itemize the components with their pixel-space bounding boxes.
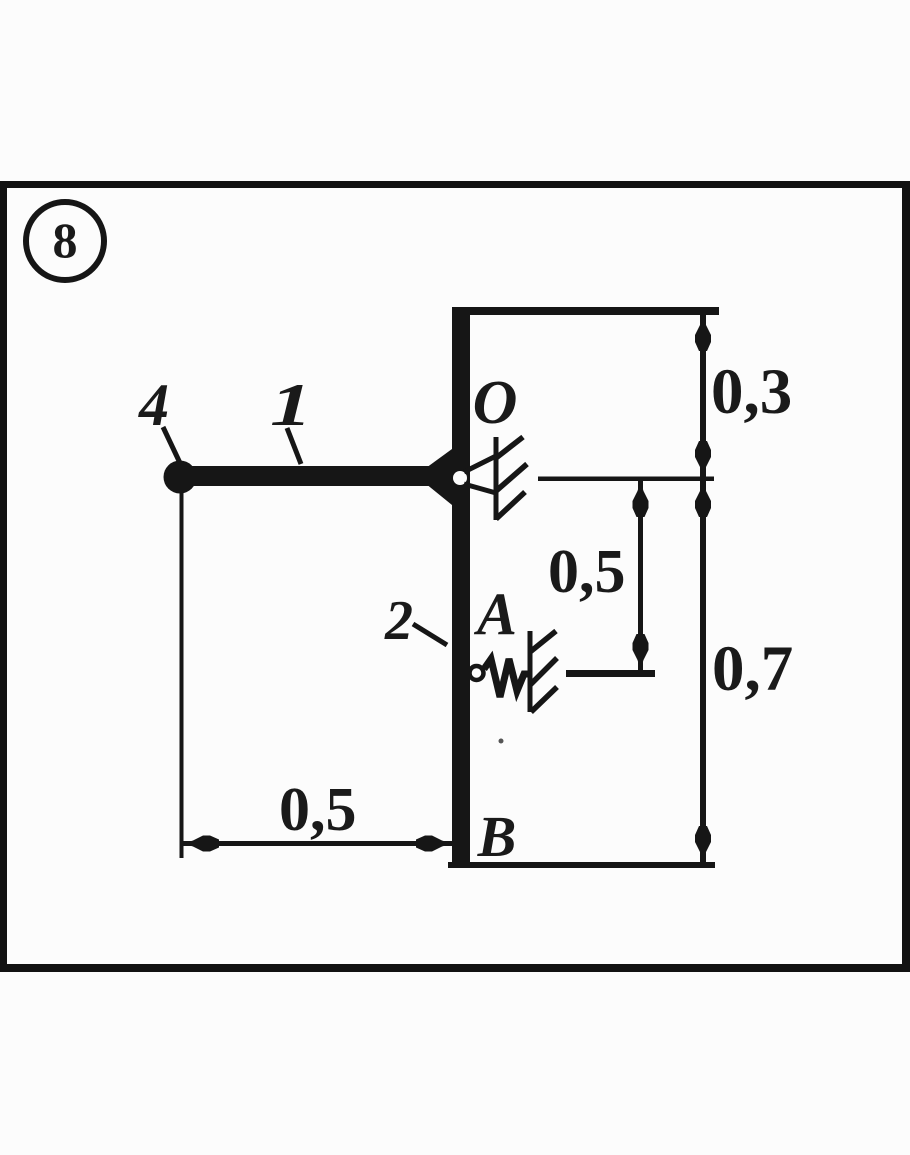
svg-text:B: B <box>477 804 517 869</box>
svg-text:2: 2 <box>384 590 413 652</box>
svg-text:1: 1 <box>270 372 312 438</box>
svg-text:O: O <box>473 369 518 437</box>
svg-text:0,3: 0,3 <box>711 356 792 428</box>
svg-text:A: A <box>473 581 517 647</box>
svg-text:8: 8 <box>53 212 78 268</box>
svg-text:4: 4 <box>138 372 169 438</box>
svg-text:0,7: 0,7 <box>712 633 793 705</box>
svg-text:0,5: 0,5 <box>548 538 626 606</box>
svg-text:0,5: 0,5 <box>279 776 357 844</box>
